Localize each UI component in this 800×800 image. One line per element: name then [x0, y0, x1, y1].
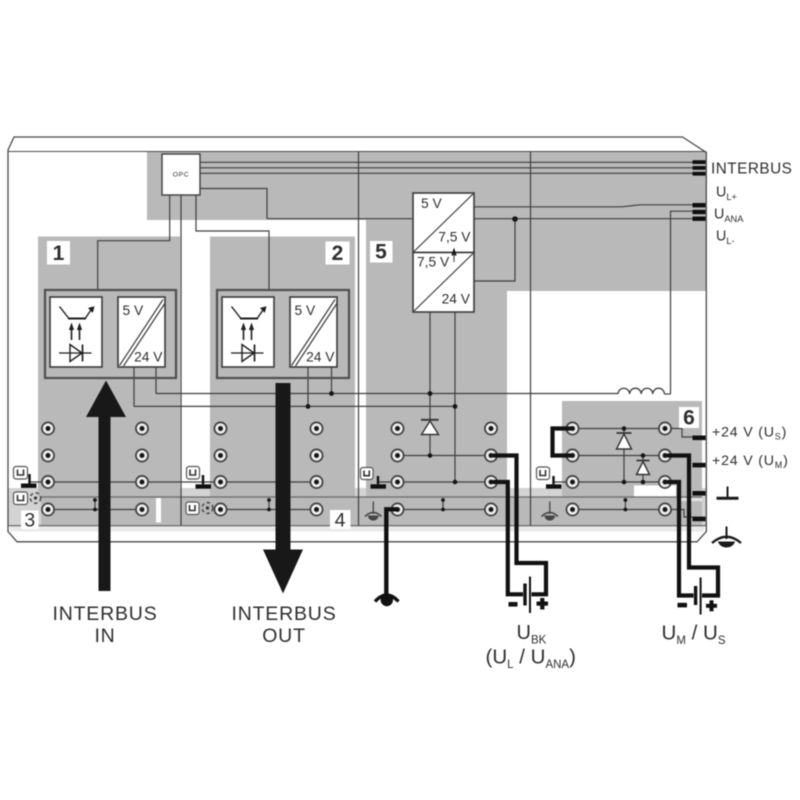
wire rail A 24V distribution	[156, 393, 618, 395]
wire block 5 converter output right	[454, 312, 456, 482]
FE bus light band	[8, 488, 706, 526]
INTERBUS connector tabs	[693, 160, 706, 164]
protocol chip OPC	[162, 154, 200, 195]
terminal bus gray strip	[41, 497, 702, 526]
svg-text:INTERBUS: INTERBUS	[232, 603, 337, 625]
wire OPC to block 2	[196, 195, 269, 290]
junction node rail B block 2	[306, 404, 311, 409]
stub nodes block 4	[267, 498, 271, 502]
white sliver at right edge	[703, 291, 706, 488]
wire terminal row 2 block 5	[398, 455, 492, 457]
node between converters	[451, 248, 456, 256]
wire rail A to UANA vertical	[664, 393, 670, 395]
svg-text:3: 3	[24, 510, 35, 532]
ground connector tab	[693, 491, 706, 496]
functional earth symbol block 5	[372, 502, 374, 515]
functional earth symbol right	[726, 527, 728, 540]
junction node D4 top	[641, 453, 646, 458]
svg-text:UM / US: UM / US	[662, 622, 726, 648]
svg-text:INTERBUS: INTERBUS	[53, 603, 158, 625]
shield icon block 4	[187, 467, 200, 480]
block 4 label	[330, 510, 351, 529]
block 1 label	[47, 241, 70, 265]
wire INTERBUS data line 3	[200, 172, 693, 174]
svg-text:5 V: 5 V	[123, 303, 145, 318]
wire terminal row 4 block 5	[398, 509, 492, 511]
wire rail B 24V return	[134, 405, 455, 407]
svg-text:OUT: OUT	[262, 625, 306, 647]
UL- connector tab	[693, 217, 706, 221]
shield stub block 4	[268, 500, 270, 510]
svg-text:2: 2	[332, 242, 344, 265]
arrow INTERBUS IN	[86, 381, 126, 592]
wire terminal row 3 blocks 3-4	[30, 481, 317, 483]
svg-text:7,5 V: 7,5 V	[438, 230, 471, 245]
shield icon block 3	[14, 467, 28, 480]
separator wire at block 6 left	[530, 152, 532, 526]
shield stub block 5	[442, 500, 444, 510]
shield stub block 6	[624, 500, 626, 510]
terminal column 5 block 5	[391, 422, 403, 515]
stub nodes block 6	[624, 498, 628, 502]
terminal column 8 block 6	[659, 422, 671, 515]
DC/DC converter block 2 5V/24V	[290, 297, 337, 367]
earth cable from block 5 terminal	[386, 509, 398, 594]
svg-text:4: 4	[335, 510, 346, 532]
wire block 6 row 4 to tab	[671, 510, 693, 518]
wire OPC to block 1	[98, 195, 170, 290]
top bus gray area	[147, 152, 706, 220]
diode D1 block 5	[421, 419, 439, 421]
block 6 gray area	[562, 401, 702, 497]
battery UM short plate	[694, 586, 697, 605]
block 5 gray column	[366, 291, 507, 497]
wire UANA tab down to rail A	[671, 211, 693, 394]
clamp icon block 4	[186, 502, 199, 515]
svg-text:6: 6	[683, 407, 695, 430]
diode D3 stem block 6	[623, 429, 625, 483]
diode D4 block 6	[637, 460, 650, 462]
stub nodes block 5	[441, 498, 445, 502]
wire block 6 row 1 to +24V US tab	[671, 429, 693, 438]
minus sign UM	[678, 603, 688, 608]
diode D3 block 6	[617, 432, 632, 434]
block 2 gray area	[210, 237, 355, 498]
optocoupler U2	[222, 297, 274, 367]
block 1 inner module box	[45, 290, 176, 378]
svg-text:IN: IN	[94, 625, 115, 647]
wire terminal row 4 block 4	[221, 509, 317, 511]
bus strip top line	[41, 496, 702, 498]
svg-text:1: 1	[53, 242, 65, 265]
DC/DC converter block 1 5V/24V	[118, 297, 165, 367]
earth connector tab	[693, 517, 706, 522]
wire terminal row 4 block 6	[573, 509, 666, 511]
light strip right of block 6	[677, 498, 702, 501]
terminal column 3 block 4	[214, 422, 226, 515]
block 2 label	[326, 242, 350, 265]
shield icon block 5	[361, 468, 374, 480]
housing inner top edge line	[8, 151, 706, 153]
wire UL- rail left segment	[267, 218, 413, 220]
protective earth symbol below housing	[375, 595, 399, 602]
svg-text:24 V: 24 V	[134, 350, 163, 365]
housing outline	[8, 137, 706, 542]
svg-text:5: 5	[375, 241, 387, 264]
junction node D3 bottom	[622, 480, 627, 485]
terminal column 2 block 3	[136, 422, 148, 515]
diode D4 stem block 6	[642, 456, 644, 483]
svg-text:7,5 V: 7,5 V	[417, 255, 450, 270]
svg-text:24 V: 24 V	[306, 350, 335, 365]
right gray area	[366, 220, 706, 291]
terminal column 6 block 5	[485, 422, 497, 515]
block 1 gray area	[38, 237, 180, 498]
terminal column 1 block 3	[42, 422, 54, 515]
battery UBK short plate	[523, 584, 526, 606]
wire block 1 converter output to rail A	[155, 367, 157, 394]
wire block 2 converter output 24V	[307, 367, 309, 406]
arrow INTERBUS OUT	[263, 383, 303, 594]
white channel left of block 6	[507, 401, 562, 488]
plus sign UBK	[537, 602, 549, 606]
functional earth symbol block 6	[549, 502, 551, 515]
minus sign UBK	[509, 602, 518, 607]
terminal column 7 block 6	[566, 422, 578, 515]
block 6 label	[679, 407, 699, 428]
block 5 label	[370, 241, 393, 263]
block 2 inner module box	[217, 290, 349, 378]
ground symbol block 6	[552, 476, 554, 484]
ground symbol block 4	[202, 475, 204, 484]
wire block 1 converter output 24V	[133, 367, 135, 406]
cable UM negative to terminal	[667, 482, 694, 596]
wire OPC to UL- rail	[200, 189, 267, 219]
svg-text:5 V: 5 V	[295, 303, 317, 318]
wire UL- rail right segment to tab	[474, 218, 693, 220]
wire UL- drop to converter	[474, 219, 515, 281]
clamp icon block 3	[14, 492, 28, 505]
DC/DC converter 7.5V/24V	[413, 253, 474, 313]
+24V UM connector tab	[693, 463, 706, 468]
svg-text:OPC: OPC	[173, 172, 190, 179]
wire terminal row 3 block 6	[554, 481, 666, 483]
junction node D3 top	[622, 426, 627, 431]
wire INTERBUS data line 2	[200, 167, 693, 169]
junction node UL- drop	[512, 216, 518, 222]
test point block 3	[30, 493, 40, 503]
ground symbol right	[727, 487, 729, 498]
+24V US connector tab	[693, 436, 706, 441]
jumper block 6 terminals	[553, 429, 572, 456]
svg-text:24 V: 24 V	[442, 292, 471, 307]
separator wire between blocks 2 and 5	[358, 152, 360, 526]
junction node rail A block 2	[329, 391, 334, 396]
junction node D4 bottom	[641, 480, 646, 485]
ground symbol block 5	[377, 476, 379, 484]
wire terminal row 1 block 6	[573, 428, 666, 430]
UL+ connector tab	[693, 203, 706, 207]
optocoupler U1	[50, 297, 102, 367]
block 3 label	[21, 511, 39, 530]
wire terminal row 4 block 3	[44, 509, 142, 511]
cable UBK negative to terminal	[493, 482, 523, 594]
test point block 4	[202, 503, 213, 514]
wire OPC middle down channel	[180, 195, 182, 526]
shield icon block 6	[537, 467, 550, 480]
junction node rail A block 5	[428, 391, 433, 396]
white region right-center	[507, 291, 703, 401]
cable UBK positive to terminal	[493, 456, 546, 595]
wire block 5 converter down through diode node	[429, 312, 431, 420]
battery UM long plate	[700, 578, 702, 615]
wire block 5 diode to row 2	[429, 435, 431, 456]
stub nodes block 3	[93, 498, 97, 502]
bus strip bottom line	[8, 525, 706, 527]
wire terminal row 2 block 6	[573, 455, 666, 457]
junction node rail B block 5	[453, 404, 458, 409]
junction node diode row 2	[428, 453, 433, 458]
junction node row 3 block 5	[453, 480, 458, 485]
wire UL+ line with jog	[474, 205, 693, 207]
cable UM positive to terminal	[667, 456, 718, 596]
terminal column 4 block 4	[310, 422, 322, 515]
svg-text:INTERBUS: INTERBUS	[711, 161, 792, 178]
shield stub block 3	[94, 500, 96, 510]
white notch under block 6	[634, 486, 676, 498]
UANA connector tab	[693, 210, 706, 214]
wire block 2 converter output to rail A	[331, 367, 333, 394]
battery UBK long plate	[529, 577, 531, 614]
plus sign UM	[706, 604, 717, 608]
wire terminal row 3 block 5	[378, 481, 491, 483]
svg-text:5 V: 5 V	[421, 196, 443, 211]
DC/DC converter 5V/7.5V	[413, 193, 474, 253]
white slot marker near terminal 2	[156, 498, 161, 523]
ground symbol block 3	[28, 474, 30, 484]
inductor L1	[618, 388, 664, 394]
wire INTERBUS data line 1	[200, 161, 693, 163]
